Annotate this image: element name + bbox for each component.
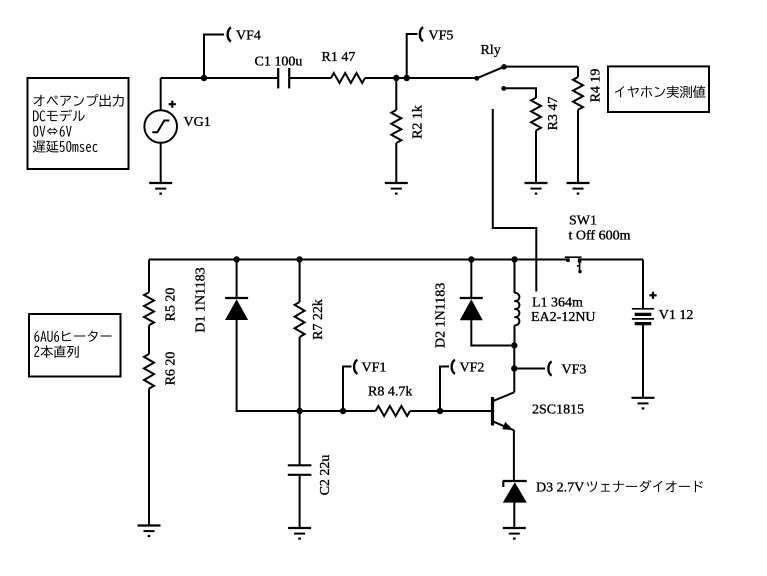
svg-text:SW1: SW1 xyxy=(569,213,597,228)
wire L1 top lead xyxy=(514,260,516,294)
source VG1 xyxy=(144,110,177,143)
capacitor C1 xyxy=(278,68,289,88)
node junction VF1 tap xyxy=(340,408,346,414)
svg-text:R5 20: R5 20 xyxy=(164,288,179,322)
relay throw contact xyxy=(501,64,507,70)
ground VG1 xyxy=(149,183,172,194)
relay NC contact xyxy=(501,86,506,91)
wire L1 bottom lead xyxy=(514,325,516,345)
ground C2 xyxy=(288,528,311,539)
svg-text:V1 12: V1 12 xyxy=(659,308,694,323)
node junction base node xyxy=(296,408,302,414)
relay pivot contact xyxy=(474,76,479,81)
annotation text earphone xyxy=(615,85,706,98)
svg-text:C1 100u: C1 100u xyxy=(255,54,303,69)
svg-text:D2 1N1183: D2 1N1183 xyxy=(434,283,449,348)
svg-text:R3 47: R3 47 xyxy=(546,97,561,131)
wire VF4 probe stub xyxy=(204,35,224,79)
svg-text:L1 364m: L1 364m xyxy=(532,295,583,310)
svg-text:Rly: Rly xyxy=(481,43,501,58)
wire R4 top lead xyxy=(577,67,579,77)
wire C2 bottom lead xyxy=(299,475,301,528)
annotation text line 2 xyxy=(33,110,85,122)
polarity plus V1 xyxy=(649,292,656,299)
resistor R2 xyxy=(391,110,401,143)
wire R6 bottom lead xyxy=(148,389,150,526)
probe VF3 xyxy=(548,362,551,376)
wire R2 top lead xyxy=(395,78,397,110)
wire C1 to R1 xyxy=(289,77,331,79)
wire D3 bottom lead xyxy=(513,503,515,528)
transistor Q1 2SC1815 xyxy=(493,392,515,430)
capacitor C2 xyxy=(288,465,312,475)
svg-text:VG1: VG1 xyxy=(184,115,211,130)
ground D3 xyxy=(503,528,526,539)
node junction D1 bus xyxy=(233,256,239,262)
inductor L1 xyxy=(515,293,520,325)
wire R5 to R6 xyxy=(148,325,150,354)
svg-text:VF4: VF4 xyxy=(236,28,261,43)
wire VG1 top to C1 xyxy=(161,77,279,79)
wire relay to R4 xyxy=(504,66,578,68)
svg-text:t Off 600m: t Off 600m xyxy=(569,229,631,244)
wire R7 top lead xyxy=(299,260,301,303)
svg-text:2SC1815: 2SC1815 xyxy=(532,402,584,417)
diode D2 xyxy=(460,298,483,320)
svg-text:R2 1k: R2 1k xyxy=(411,105,426,139)
wire collector lead xyxy=(513,346,515,393)
wire VG1 top lead xyxy=(160,78,162,110)
wire D2 bottom lead xyxy=(471,320,514,345)
wire VF2 probe stub xyxy=(440,367,449,412)
wire D2 top lead xyxy=(470,260,472,299)
node junction collector node xyxy=(511,342,517,348)
node junction L1 bus xyxy=(511,256,517,262)
probe VF5 xyxy=(420,27,423,41)
switch SW1 xyxy=(565,257,582,273)
node junction D2 bus xyxy=(468,256,474,262)
wire R1 to relay xyxy=(365,77,477,79)
annotation box heater xyxy=(29,314,121,377)
resistor R1 xyxy=(331,73,365,83)
wire V1 bottom lead xyxy=(642,324,644,398)
svg-text:C2 22u: C2 22u xyxy=(318,455,333,496)
relay linkage line xyxy=(493,109,537,292)
wire NC contact to R3 xyxy=(505,88,537,98)
wire R2 bottom lead xyxy=(395,143,397,183)
resistor R3 xyxy=(531,98,541,131)
node junction VF3 tap xyxy=(511,365,517,371)
wire bus left xyxy=(149,259,569,261)
wire D1 top lead xyxy=(236,260,238,299)
annotation box opamp output model xyxy=(28,78,129,169)
wire bus right xyxy=(580,259,643,261)
node junction R7 bus xyxy=(296,256,302,262)
svg-text:R1 47: R1 47 xyxy=(322,50,356,65)
wire R3 bottom lead xyxy=(535,131,537,184)
annotation text heater 2 xyxy=(34,345,79,358)
ground R3 xyxy=(525,183,548,194)
label D3 xyxy=(536,480,703,496)
ground R2 xyxy=(385,183,408,194)
wire VF5 probe stub xyxy=(407,34,418,78)
wire VF1 probe stub xyxy=(343,367,352,412)
annotation box earphone measured xyxy=(608,66,709,112)
node junction R2 tap xyxy=(393,75,399,81)
wire VF3 probe stub xyxy=(514,368,545,370)
wire VG1 bottom lead xyxy=(160,143,162,183)
svg-text:R4 19: R4 19 xyxy=(589,69,604,103)
diode D1 xyxy=(225,298,248,320)
annotation text line 4 xyxy=(33,141,98,153)
annotation text line 3 xyxy=(33,126,71,137)
node junction VF2 tap xyxy=(437,408,443,414)
ground V1 xyxy=(632,398,655,409)
resistor R4 xyxy=(573,77,583,110)
wire emitter lead xyxy=(513,430,515,481)
probe VF1 xyxy=(354,360,357,374)
node junction VF4 tap xyxy=(201,75,207,81)
wire R4 bottom lead xyxy=(577,110,579,183)
annotation text line 1 xyxy=(33,94,123,107)
svg-text:R7 22k: R7 22k xyxy=(311,299,326,340)
wire base node to R8 xyxy=(300,410,376,412)
svg-text:EA2-12NU: EA2-12NU xyxy=(531,310,596,325)
svg-text:D1 1N1183: D1 1N1183 xyxy=(194,267,209,332)
svg-text:VF1: VF1 xyxy=(362,360,387,375)
ground R4 xyxy=(567,183,590,194)
probe VF4 xyxy=(228,28,231,42)
wire left rail top lead xyxy=(148,260,150,293)
relay Rly blade xyxy=(477,67,504,79)
svg-text:R6 20: R6 20 xyxy=(164,352,179,386)
wire D1 bottom lead xyxy=(237,320,300,411)
node junction VF5 tap xyxy=(404,75,410,81)
svg-text:R8 4.7k: R8 4.7k xyxy=(368,384,412,399)
battery V1 xyxy=(632,309,654,324)
wire R7 bottom lead xyxy=(299,337,301,411)
diode D3 zener xyxy=(503,481,527,503)
wire V1 top lead xyxy=(642,260,644,309)
wire R8 to base xyxy=(410,410,491,412)
annotation text heater 1 xyxy=(34,330,111,341)
probe VF2 xyxy=(452,360,455,374)
resistor R8 xyxy=(376,406,411,416)
ground left rail xyxy=(138,526,161,537)
svg-text:VF2: VF2 xyxy=(460,360,485,375)
wire C2 top lead xyxy=(299,411,301,465)
svg-text:VF5: VF5 xyxy=(429,28,454,43)
svg-text:VF3: VF3 xyxy=(562,363,587,378)
svg-text:D3 2.7V: D3 2.7V xyxy=(536,481,584,496)
resistor R7 xyxy=(295,302,305,337)
polarity plus VG1 xyxy=(169,101,176,108)
resistor R6 xyxy=(144,354,154,389)
resistor R5 xyxy=(144,292,154,325)
